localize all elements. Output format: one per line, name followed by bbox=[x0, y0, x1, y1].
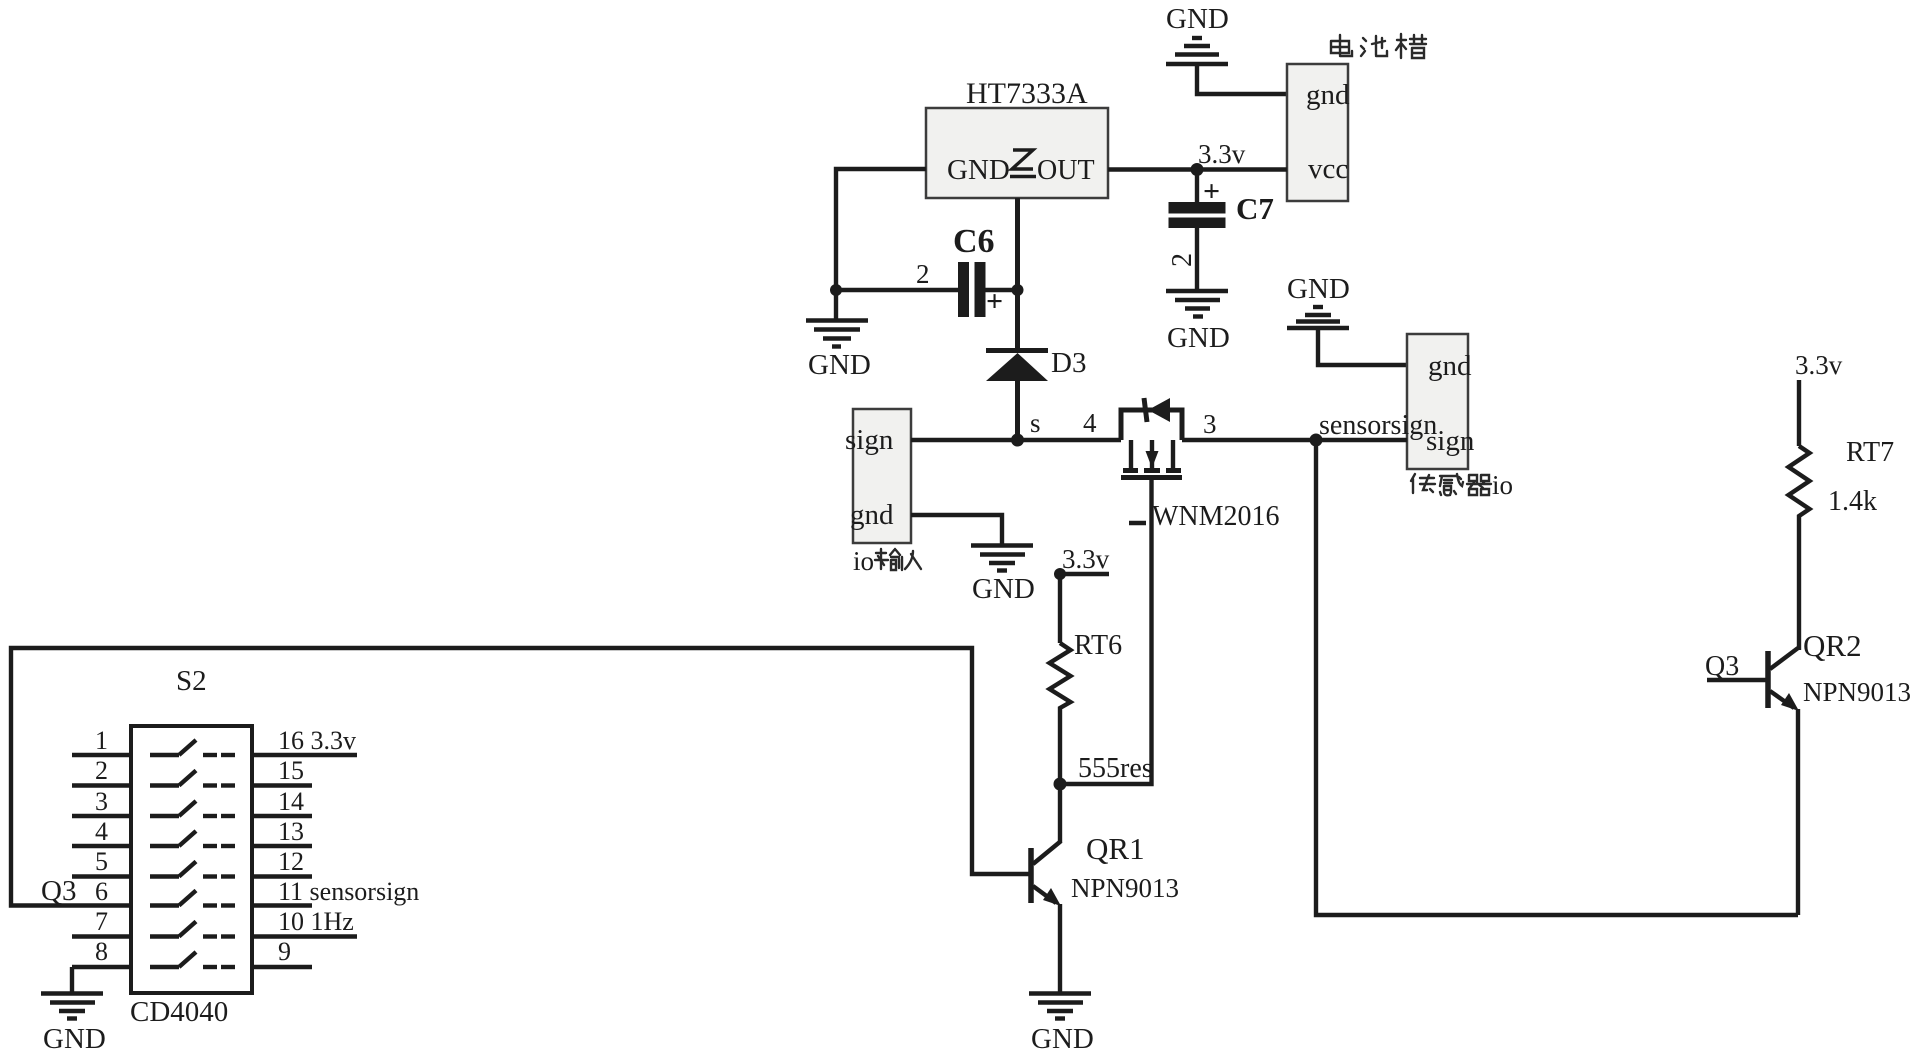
svg-text:GND: GND bbox=[1287, 273, 1350, 305]
wire D3 anode down to s node bbox=[1015, 381, 1020, 440]
transistor QR1 bbox=[1031, 831, 1179, 906]
resistor RT7 bbox=[1789, 446, 1810, 525]
wire 555res node down to QR1 collector bbox=[1058, 784, 1062, 843]
pin 10 / net 1Hz bbox=[252, 907, 357, 937]
switch row 4 bbox=[150, 831, 235, 846]
capacitor C6 plates bbox=[958, 262, 1003, 318]
svg-text:16 3.3v: 16 3.3v bbox=[278, 726, 356, 755]
wire HT7333A OUT to vcc (3.3v rail) bbox=[1108, 167, 1287, 171]
wire QR2 emitter down to bottom rail bbox=[1796, 709, 1800, 915]
svg-text:s: s bbox=[1030, 408, 1041, 438]
svg-text:6: 6 bbox=[95, 877, 108, 906]
svg-text:HT7333A: HT7333A bbox=[966, 77, 1088, 110]
switch row 3 bbox=[150, 801, 235, 816]
switch row 7 bbox=[150, 922, 235, 937]
wire long feedback: QR1 base to S2 pin 6 bbox=[11, 648, 1030, 906]
svg-text:NPN9013: NPN9013 bbox=[1071, 873, 1179, 903]
node 3.3v / C7 top bbox=[1191, 163, 1204, 176]
svg-text:3.3v: 3.3v bbox=[1062, 544, 1110, 574]
label 传感器io (Chinese) bbox=[1411, 474, 1491, 495]
svg-text:12: 12 bbox=[278, 847, 304, 876]
svg-text:WNM2016: WNM2016 bbox=[1152, 501, 1280, 532]
svg-text:io: io bbox=[1492, 470, 1513, 500]
wire mosfet gate down to 555res bbox=[1060, 478, 1152, 785]
池 bbox=[1361, 36, 1387, 56]
电 bbox=[1331, 35, 1352, 56]
svg-text:GND: GND bbox=[947, 154, 1010, 186]
transistor QR2 bbox=[1768, 628, 1911, 711]
wire mosfet right to sensorsign node bbox=[1182, 438, 1316, 442]
label WNM2016 bbox=[1129, 501, 1280, 532]
wire 3.3v down to RT6 bbox=[1058, 574, 1062, 643]
pin 3 bbox=[72, 787, 131, 816]
svg-text:9: 9 bbox=[278, 937, 291, 966]
pin 9 bbox=[252, 937, 312, 967]
wire 3.3v down to RT7 bbox=[1797, 380, 1801, 446]
svg-text:OUT: OUT bbox=[1037, 155, 1095, 186]
svg-text:1.4k: 1.4k bbox=[1828, 486, 1877, 517]
node at left rail / C6 left bbox=[830, 284, 842, 296]
svg-text:Q3: Q3 bbox=[41, 875, 76, 907]
svg-text:4: 4 bbox=[1083, 408, 1097, 438]
ground GND (below pin 8) bbox=[41, 994, 106, 1056]
svg-text:11 sensorsign: 11 sensorsign bbox=[278, 877, 419, 906]
wire RT7 to QR2 collector bbox=[1797, 525, 1801, 650]
感 bbox=[1440, 474, 1463, 495]
pin 16 / net 3.3v bbox=[252, 726, 357, 755]
wire 3.3v stub bbox=[1060, 572, 1109, 576]
svg-text:5: 5 bbox=[95, 847, 108, 876]
wire sensorsign node to sensor io sign pin bbox=[1316, 438, 1407, 442]
svg-text:vcc: vcc bbox=[1308, 153, 1348, 185]
svg-text:GND: GND bbox=[1031, 1023, 1094, 1055]
pin 8 bbox=[72, 937, 131, 967]
pin 7 bbox=[72, 907, 131, 937]
svg-text:RT6: RT6 bbox=[1074, 630, 1122, 661]
svg-text:S2: S2 bbox=[176, 665, 207, 697]
wire C6 right plate to output rail bbox=[986, 288, 1018, 292]
svg-text:gnd: gnd bbox=[1306, 79, 1350, 111]
svg-text:GND: GND bbox=[43, 1023, 106, 1055]
resistor RT6 bbox=[1050, 643, 1071, 714]
wire node s to mosfet bbox=[1018, 438, 1122, 442]
pin 5 bbox=[72, 847, 131, 877]
svg-text:C6: C6 bbox=[953, 223, 995, 260]
svg-text:2: 2 bbox=[916, 259, 930, 289]
svg-text:QR2: QR2 bbox=[1803, 628, 1862, 663]
svg-text:QR1: QR1 bbox=[1086, 831, 1145, 866]
pin 1 bbox=[72, 726, 131, 755]
pin 6 / net Q3 bbox=[41, 875, 108, 907]
battery holder box 电池槽 bbox=[1287, 64, 1350, 201]
wire pin 8 to ground bbox=[70, 967, 74, 992]
top loop with body diode bbox=[1121, 410, 1182, 440]
器 bbox=[1467, 475, 1491, 495]
capacitor C7 bbox=[1169, 170, 1274, 229]
ground GND (below C7) bbox=[1166, 291, 1230, 354]
svg-text:NPN9013: NPN9013 bbox=[1803, 677, 1911, 707]
svg-text:GND: GND bbox=[1167, 322, 1230, 354]
svg-text:CD4040: CD4040 bbox=[130, 996, 228, 1028]
connector box 传感器io bbox=[1407, 334, 1475, 469]
ground GND (below left rail) bbox=[806, 290, 871, 381]
wire QR1 emitter down to ground bbox=[1058, 904, 1062, 992]
wire RT6 bottom to 555res node bbox=[1058, 714, 1062, 784]
svg-text:7: 7 bbox=[95, 907, 108, 936]
svg-text:GND: GND bbox=[972, 573, 1035, 605]
svg-text:sensorsign: sensorsign bbox=[1319, 410, 1437, 441]
槽 bbox=[1396, 34, 1426, 58]
node 3.3v RT6 bbox=[1054, 568, 1066, 580]
svg-text:Q3: Q3 bbox=[1705, 651, 1739, 682]
regulator HT7333A box bbox=[926, 108, 1108, 198]
输 bbox=[875, 549, 902, 570]
pin 13 bbox=[252, 817, 312, 846]
wire ground to sensor io gnd pin bbox=[1318, 328, 1407, 365]
wire io input sign pin to node s bbox=[911, 438, 1018, 442]
svg-text:1: 1 bbox=[95, 726, 108, 755]
IC CD4040 box bbox=[131, 726, 252, 993]
wire C7 bottom to ground bbox=[1195, 228, 1199, 290]
channel stubs bbox=[1129, 440, 1133, 468]
label 电池槽 (Chinese) bbox=[1331, 34, 1426, 58]
pin 2 bbox=[72, 756, 131, 786]
入 bbox=[905, 551, 921, 569]
svg-text:gnd: gnd bbox=[850, 499, 894, 531]
diode D3 bbox=[986, 347, 1086, 381]
wire Q3 to QR2 base bbox=[1707, 678, 1766, 682]
svg-text:2: 2 bbox=[95, 756, 108, 785]
wire io input gnd to ground bbox=[911, 515, 1002, 544]
pin 4 bbox=[72, 817, 131, 846]
pin 14 bbox=[252, 787, 312, 816]
svg-text:3: 3 bbox=[1203, 409, 1217, 439]
svg-text:15: 15 bbox=[278, 756, 304, 785]
ground GND (top, above battery gnd pin, mirrored) bbox=[1166, 3, 1229, 64]
wire HT7333A left pin to left rail bbox=[836, 169, 926, 290]
switch row 8 bbox=[150, 952, 235, 967]
svg-text:2: 2 bbox=[1167, 253, 1198, 267]
svg-text:GND: GND bbox=[808, 349, 871, 381]
gate bars bbox=[1123, 468, 1138, 473]
wire left rail to C6 bbox=[836, 288, 959, 292]
node C6/output rail bbox=[1012, 284, 1024, 296]
switch row 6 bbox=[150, 891, 235, 906]
mosfet WNM2016 bbox=[1121, 398, 1182, 478]
node s bbox=[1011, 434, 1024, 447]
pin 12 bbox=[252, 847, 312, 877]
switch row 5 bbox=[150, 862, 235, 877]
svg-text:13: 13 bbox=[278, 817, 304, 846]
pin 11 / net sensorsign bbox=[252, 877, 419, 906]
svg-text:3.3v: 3.3v bbox=[1795, 350, 1843, 380]
svg-text:sign: sign bbox=[845, 424, 894, 456]
wire sensorsign node down and right to QR2 emitter bbox=[1316, 440, 1798, 915]
传 bbox=[1411, 474, 1435, 493]
svg-text:gnd: gnd bbox=[1428, 350, 1472, 382]
svg-text:555res: 555res bbox=[1078, 753, 1153, 784]
svg-text:io: io bbox=[853, 546, 874, 576]
wire from top ground down to battery gnd pin bbox=[1197, 64, 1287, 94]
svg-text:GND: GND bbox=[1166, 3, 1229, 35]
svg-text:14: 14 bbox=[278, 787, 304, 816]
svg-text:8: 8 bbox=[95, 937, 108, 966]
svg-text:RT7: RT7 bbox=[1846, 437, 1894, 468]
svg-text:D3: D3 bbox=[1051, 347, 1086, 379]
svg-text:3: 3 bbox=[95, 787, 108, 816]
pin 15 bbox=[252, 756, 312, 786]
input connector box io输入 bbox=[845, 409, 911, 543]
node sensorsign bbox=[1310, 434, 1323, 447]
ground GND (above sensor io, mirrored) bbox=[1287, 273, 1350, 328]
switch row 2 bbox=[150, 771, 235, 786]
wire HT7333A bottom pin down output rail to D3 bbox=[1015, 198, 1020, 349]
svg-text:3.3v: 3.3v bbox=[1198, 139, 1246, 169]
svg-text:C7: C7 bbox=[1236, 191, 1274, 226]
svg-text:10 1Hz: 10 1Hz bbox=[278, 907, 354, 936]
node 555res bbox=[1054, 778, 1067, 791]
ground GND (below QR1) bbox=[1029, 994, 1094, 1056]
ground GND (below io input) bbox=[971, 546, 1035, 606]
svg-text:4: 4 bbox=[95, 817, 108, 846]
switch row 1 bbox=[150, 740, 235, 755]
